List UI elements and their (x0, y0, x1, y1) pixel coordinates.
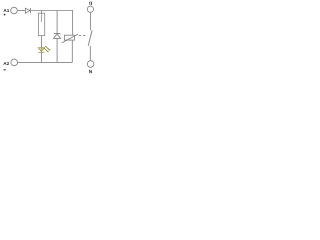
svg-text:A1: A1 (3, 8, 9, 13)
svg-text:A2: A2 (3, 61, 9, 66)
